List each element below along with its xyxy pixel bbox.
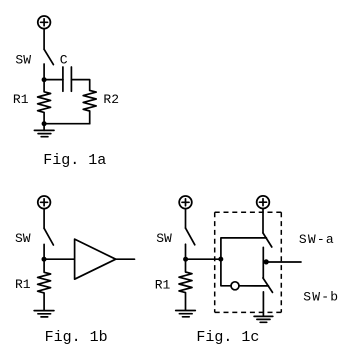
wire node to capacitor Fig.1a (44, 79, 63, 81)
supply symbol (circle with plus) Fig.1c main (179, 196, 192, 209)
wire node to op-amp Fig.1b (44, 258, 75, 260)
switch SW-b blade Fig.1c (263, 278, 273, 293)
wire riser down to inverter Fig.1c (221, 259, 231, 286)
wire supply2 to SW-a Fig.1c (262, 209, 264, 234)
ground Fig.1b (34, 311, 54, 317)
ground Fig.1c R1 (176, 311, 196, 317)
svg-text:R1: R1 (15, 277, 31, 292)
svg-text:SW-a: SW-a (299, 232, 335, 247)
switch SW-b bottom contact stub Fig.1c (262, 292, 264, 316)
svg-text:R1: R1 (13, 92, 29, 107)
node B (bottom node dot) Fig.1a (42, 121, 47, 126)
wire supply to switch Fig.1c (185, 209, 187, 229)
ground Fig.1a (34, 124, 54, 137)
switch SW bottom contact stub Fig.1b (43, 244, 45, 259)
wire capacitor to R2 top Fig.1a (71, 80, 89, 91)
wire bubble to SW-b control Fig.1c (239, 285, 268, 287)
svg-text:Fig. 1a: Fig. 1a (43, 152, 106, 169)
switch SW blade Fig.1c (186, 228, 195, 245)
resistor R1 Fig.1a (38, 80, 51, 124)
ground SW-b Fig.1c (254, 316, 273, 322)
switch SW blade Fig.1b (44, 228, 53, 245)
svg-text:Fig. 1c: Fig. 1c (196, 329, 259, 346)
node (input node dot) Fig.1c (183, 257, 188, 262)
wire SW-a lower contact to SW-b upper contact Fig.1c (262, 247, 264, 278)
switch SW-a blade Fig.1c (263, 233, 272, 247)
wire bottom (R2 to ground node) Fig.1a (44, 123, 90, 125)
capacitor C Fig.1a (63, 67, 72, 91)
supply symbol (circle with plus) Fig.1b (38, 196, 51, 209)
dashed enclosure box Fig.1c (215, 212, 282, 312)
svg-text:Fig. 1b: Fig. 1b (45, 329, 108, 346)
wire op-amp output Fig.1b (116, 258, 135, 260)
svg-text:R2: R2 (103, 92, 119, 107)
inverter bubble Fig.1c (231, 282, 239, 290)
switch SW bottom contact stub Fig.1a (43, 64, 45, 80)
svg-text:SW: SW (15, 231, 31, 246)
resistor R1 Fig.1c (179, 259, 192, 310)
supply symbol (circle with plus) Fig.1c inside box (257, 196, 270, 209)
wire output Fig.1c (263, 261, 301, 263)
node (input node dot) Fig.1b (42, 257, 47, 262)
wire riser up to SW-a control Fig.1c (221, 238, 267, 259)
wire node to dashed box junction Fig.1c (186, 258, 221, 260)
resistor R1 Fig.1b (38, 259, 51, 310)
op-amp buffer U1 (triangle) Fig.1b (75, 239, 116, 279)
output node dot Fig.1c (264, 259, 269, 264)
supply symbol (circle with plus) Fig.1a (38, 16, 51, 29)
switch SW bottom contact stub Fig.1c (185, 244, 187, 259)
svg-text:SW: SW (156, 231, 172, 246)
wire supply to switch Fig.1b (43, 209, 45, 229)
svg-text:SW-b: SW-b (303, 289, 339, 304)
wire supply to switch Fig.1a (43, 29, 45, 50)
svg-text:SW: SW (15, 52, 31, 67)
svg-text:C: C (60, 52, 68, 67)
node A (top node dot) Fig.1a (42, 77, 47, 82)
svg-text:R1: R1 (155, 277, 171, 292)
switch SW blade Fig.1a (44, 49, 53, 64)
resistor R2 Fig.1a (83, 90, 96, 123)
junction node dot Fig.1c (218, 257, 223, 262)
